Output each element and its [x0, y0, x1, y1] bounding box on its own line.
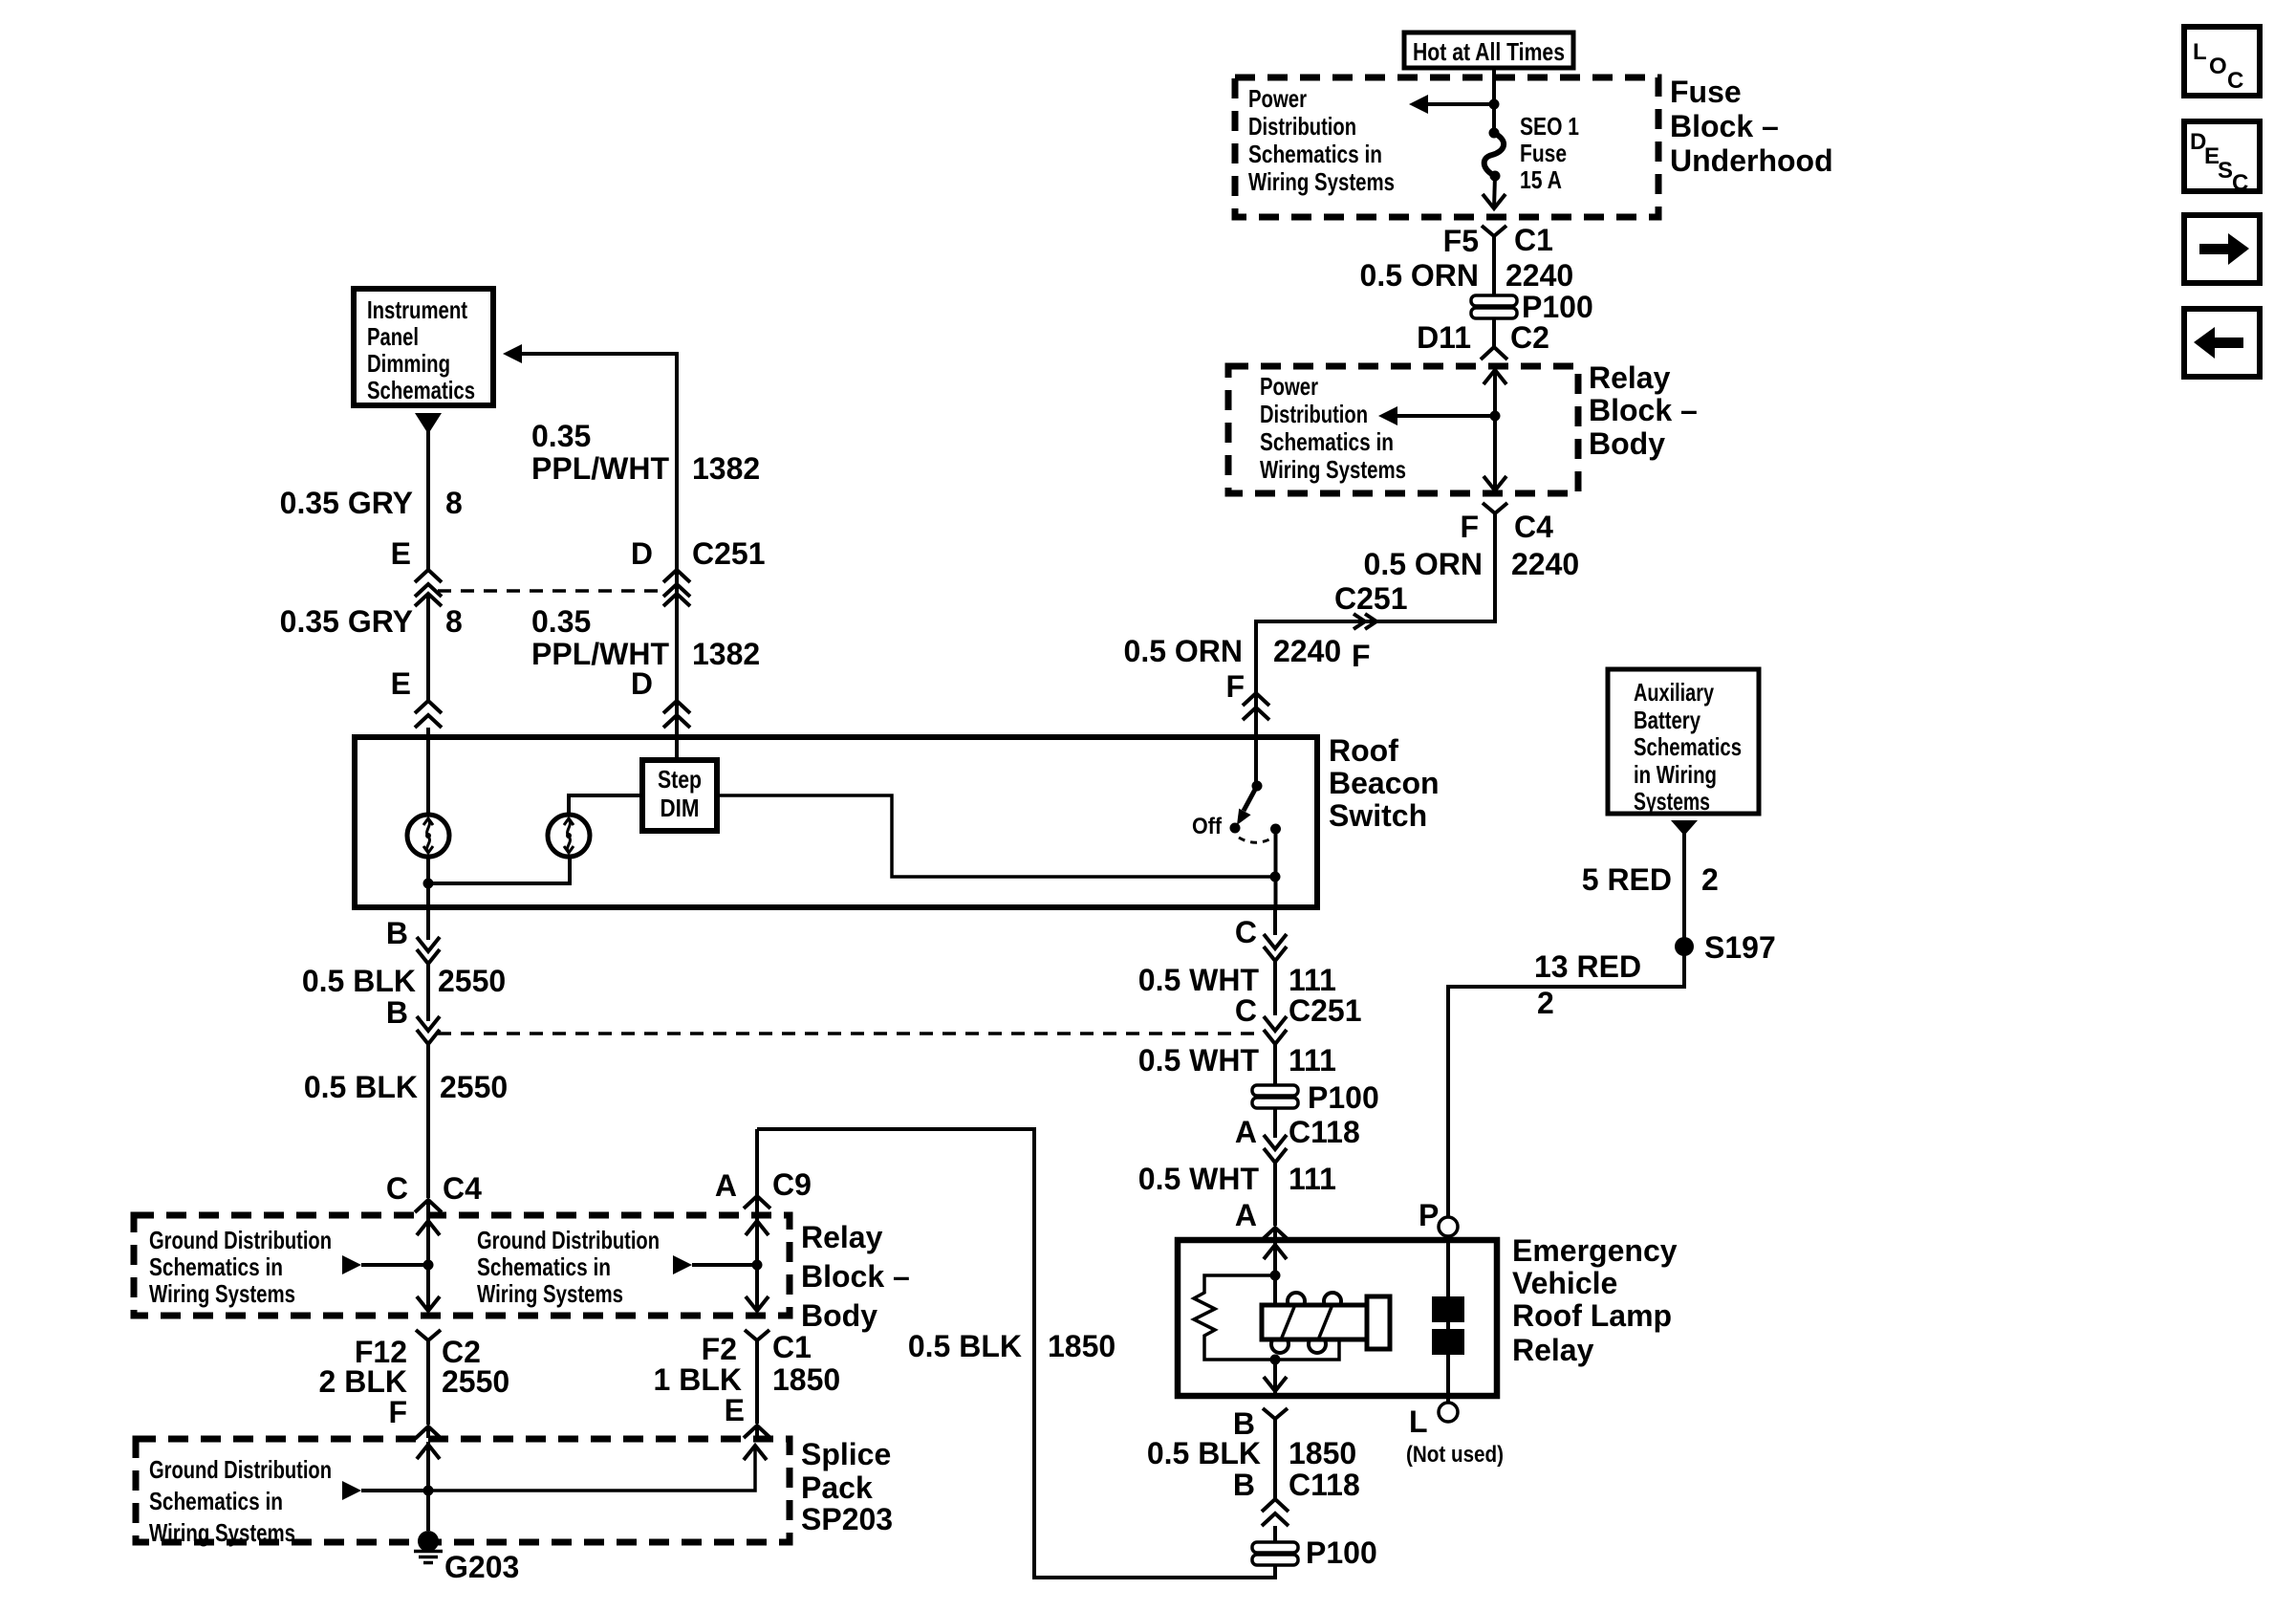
svg-text:2: 2	[1537, 986, 1554, 1020]
svg-text:F: F	[1225, 669, 1245, 704]
svg-text:13 RED: 13 RED	[1534, 949, 1641, 984]
svg-text:Schematics in: Schematics in	[149, 1252, 283, 1281]
svg-text:Systems: Systems	[1634, 787, 1710, 816]
svg-text:C1: C1	[1514, 223, 1553, 257]
svg-text:F: F	[1352, 639, 1371, 673]
svg-text:Switch: Switch	[1329, 798, 1427, 833]
svg-text:PPL/WHT: PPL/WHT	[531, 451, 669, 486]
svg-text:F: F	[1460, 510, 1479, 544]
svg-text:C: C	[2232, 170, 2248, 196]
svg-text:G203: G203	[444, 1550, 519, 1584]
svg-text:2550: 2550	[442, 1364, 509, 1399]
svg-text:Hot at All Times: Hot at All Times	[1413, 37, 1565, 66]
svg-text:C2: C2	[1510, 320, 1549, 355]
svg-text:1 BLK: 1 BLK	[654, 1362, 742, 1397]
svg-text:Pack: Pack	[801, 1470, 873, 1505]
svg-text:8: 8	[445, 604, 463, 639]
svg-text:O: O	[2209, 54, 2227, 79]
svg-text:F: F	[388, 1395, 407, 1429]
svg-text:0.35 GRY: 0.35 GRY	[280, 604, 413, 639]
svg-text:in Wiring: in Wiring	[1634, 760, 1717, 789]
svg-text:111: 111	[1289, 1162, 1336, 1196]
svg-text:Roof Lamp: Roof Lamp	[1512, 1298, 1672, 1333]
svg-text:Relay: Relay	[1512, 1333, 1594, 1367]
svg-text:S197: S197	[1704, 930, 1776, 965]
svg-text:C251: C251	[692, 536, 766, 571]
svg-text:Auxiliary: Auxiliary	[1634, 678, 1714, 707]
svg-text:Wiring Systems: Wiring Systems	[1260, 455, 1406, 484]
svg-text:2550: 2550	[438, 964, 506, 998]
svg-text:DIM: DIM	[661, 794, 700, 822]
svg-text:C: C	[2227, 68, 2243, 94]
svg-text:Ground Distribution: Ground Distribution	[149, 1226, 332, 1254]
svg-text:Emergency: Emergency	[1512, 1233, 1678, 1268]
svg-text:C: C	[386, 1171, 408, 1206]
svg-text:Power: Power	[1260, 372, 1318, 401]
svg-text:0.5 ORN: 0.5 ORN	[1364, 547, 1483, 581]
svg-text:0.5 BLK: 0.5 BLK	[302, 964, 416, 998]
svg-text:D: D	[631, 666, 653, 701]
svg-text:Distribution: Distribution	[1248, 112, 1356, 141]
svg-text:B: B	[386, 995, 408, 1030]
svg-text:C1: C1	[772, 1330, 812, 1364]
svg-text:Ground Distribution: Ground Distribution	[149, 1455, 332, 1484]
svg-text:2240: 2240	[1511, 547, 1579, 581]
svg-text:Panel: Panel	[367, 322, 419, 351]
svg-text:C251: C251	[1334, 581, 1408, 616]
svg-text:2550: 2550	[440, 1070, 508, 1104]
svg-text:L: L	[2193, 39, 2207, 65]
svg-text:C: C	[1235, 993, 1257, 1028]
svg-text:0.5 BLK: 0.5 BLK	[908, 1329, 1022, 1363]
svg-text:Battery: Battery	[1634, 706, 1700, 734]
svg-text:111: 111	[1289, 963, 1336, 997]
svg-text:Schematics in: Schematics in	[1260, 427, 1394, 456]
svg-text:C4: C4	[443, 1171, 482, 1206]
svg-text:2: 2	[1701, 862, 1719, 897]
svg-text:0.35 GRY: 0.35 GRY	[280, 486, 413, 520]
svg-text:A: A	[1235, 1115, 1257, 1149]
svg-text:0.35: 0.35	[531, 419, 591, 453]
svg-text:0.5 WHT: 0.5 WHT	[1138, 1162, 1260, 1196]
svg-text:P100: P100	[1522, 290, 1593, 324]
svg-text:Relay: Relay	[801, 1220, 883, 1254]
svg-text:Instrument: Instrument	[367, 295, 467, 324]
svg-text:Wiring Systems: Wiring Systems	[149, 1518, 295, 1547]
svg-text:S: S	[2218, 158, 2233, 184]
svg-text:0.5 WHT: 0.5 WHT	[1138, 1043, 1260, 1078]
svg-text:0.35: 0.35	[531, 604, 591, 639]
svg-text:Power: Power	[1248, 84, 1307, 113]
svg-text:Block –: Block –	[1670, 109, 1779, 143]
svg-text:C118: C118	[1289, 1115, 1360, 1149]
svg-text:Off: Off	[1192, 814, 1223, 839]
svg-text:2240: 2240	[1273, 634, 1341, 668]
svg-text:2 BLK: 2 BLK	[319, 1364, 407, 1399]
svg-text:B: B	[1233, 1468, 1255, 1502]
svg-text:SP203: SP203	[801, 1502, 893, 1536]
svg-text:Vehicle: Vehicle	[1512, 1266, 1617, 1300]
svg-text:Beacon: Beacon	[1329, 766, 1440, 800]
svg-text:1382: 1382	[692, 637, 760, 671]
svg-text:Schematics: Schematics	[1634, 732, 1742, 761]
svg-text:8: 8	[445, 486, 463, 520]
svg-text:P: P	[1419, 1198, 1439, 1232]
svg-text:P100: P100	[1306, 1535, 1377, 1570]
svg-text:F2: F2	[702, 1332, 737, 1366]
svg-text:Distribution: Distribution	[1260, 400, 1368, 428]
svg-text:B: B	[386, 916, 408, 950]
svg-text:Wiring Systems: Wiring Systems	[477, 1279, 623, 1308]
svg-text:P100: P100	[1308, 1080, 1379, 1115]
svg-text:Ground Distribution: Ground Distribution	[477, 1226, 660, 1254]
svg-text:A: A	[1235, 1198, 1257, 1232]
svg-text:0.5 ORN: 0.5 ORN	[1360, 258, 1479, 293]
svg-text:(Not used): (Not used)	[1406, 1442, 1504, 1468]
svg-text:Schematics in: Schematics in	[477, 1252, 611, 1281]
svg-text:15 A: 15 A	[1520, 165, 1562, 194]
svg-text:111: 111	[1289, 1043, 1336, 1078]
svg-text:C: C	[1235, 915, 1257, 949]
svg-text:Fuse: Fuse	[1670, 75, 1742, 109]
svg-text:0.5 WHT: 0.5 WHT	[1138, 963, 1260, 997]
svg-text:Schematics in: Schematics in	[149, 1487, 283, 1515]
svg-text:Step: Step	[658, 765, 702, 794]
svg-text:Schematics in: Schematics in	[1248, 140, 1382, 168]
svg-text:Body: Body	[1589, 426, 1665, 461]
svg-text:C4: C4	[1514, 510, 1553, 544]
svg-text:0.5 ORN: 0.5 ORN	[1124, 634, 1243, 668]
svg-text:Splice: Splice	[801, 1437, 891, 1471]
svg-text:C118: C118	[1289, 1468, 1360, 1502]
svg-text:L: L	[1409, 1404, 1428, 1439]
svg-text:Wiring Systems: Wiring Systems	[1248, 167, 1395, 196]
svg-text:Schematics: Schematics	[367, 376, 475, 404]
svg-text:1850: 1850	[1289, 1436, 1356, 1470]
svg-text:SEO 1: SEO 1	[1520, 112, 1579, 141]
svg-text:D11: D11	[1417, 320, 1471, 355]
svg-text:E: E	[725, 1393, 745, 1427]
svg-text:F5: F5	[1443, 224, 1479, 258]
svg-text:A: A	[715, 1168, 737, 1203]
svg-text:Relay: Relay	[1589, 360, 1671, 395]
svg-text:Fuse: Fuse	[1520, 139, 1567, 167]
svg-text:Wiring Systems: Wiring Systems	[149, 1279, 295, 1308]
svg-text:C251: C251	[1289, 993, 1362, 1028]
svg-text:0.5 BLK: 0.5 BLK	[304, 1070, 418, 1104]
svg-text:Body: Body	[801, 1298, 877, 1333]
svg-text:Underhood: Underhood	[1670, 143, 1833, 178]
svg-text:E: E	[391, 536, 411, 571]
svg-text:D: D	[631, 536, 653, 571]
svg-text:1382: 1382	[692, 451, 760, 486]
svg-text:1850: 1850	[1048, 1329, 1116, 1363]
svg-text:Roof: Roof	[1329, 733, 1398, 768]
svg-text:0.5 BLK: 0.5 BLK	[1147, 1436, 1261, 1470]
svg-text:5 RED: 5 RED	[1582, 862, 1672, 897]
svg-text:Block –: Block –	[801, 1259, 910, 1294]
svg-text:Block –: Block –	[1589, 393, 1698, 427]
svg-text:Dimming: Dimming	[367, 349, 450, 378]
svg-text:1850: 1850	[772, 1362, 840, 1397]
svg-text:E: E	[391, 666, 411, 701]
svg-text:2240: 2240	[1505, 258, 1573, 293]
svg-text:C9: C9	[772, 1167, 812, 1202]
